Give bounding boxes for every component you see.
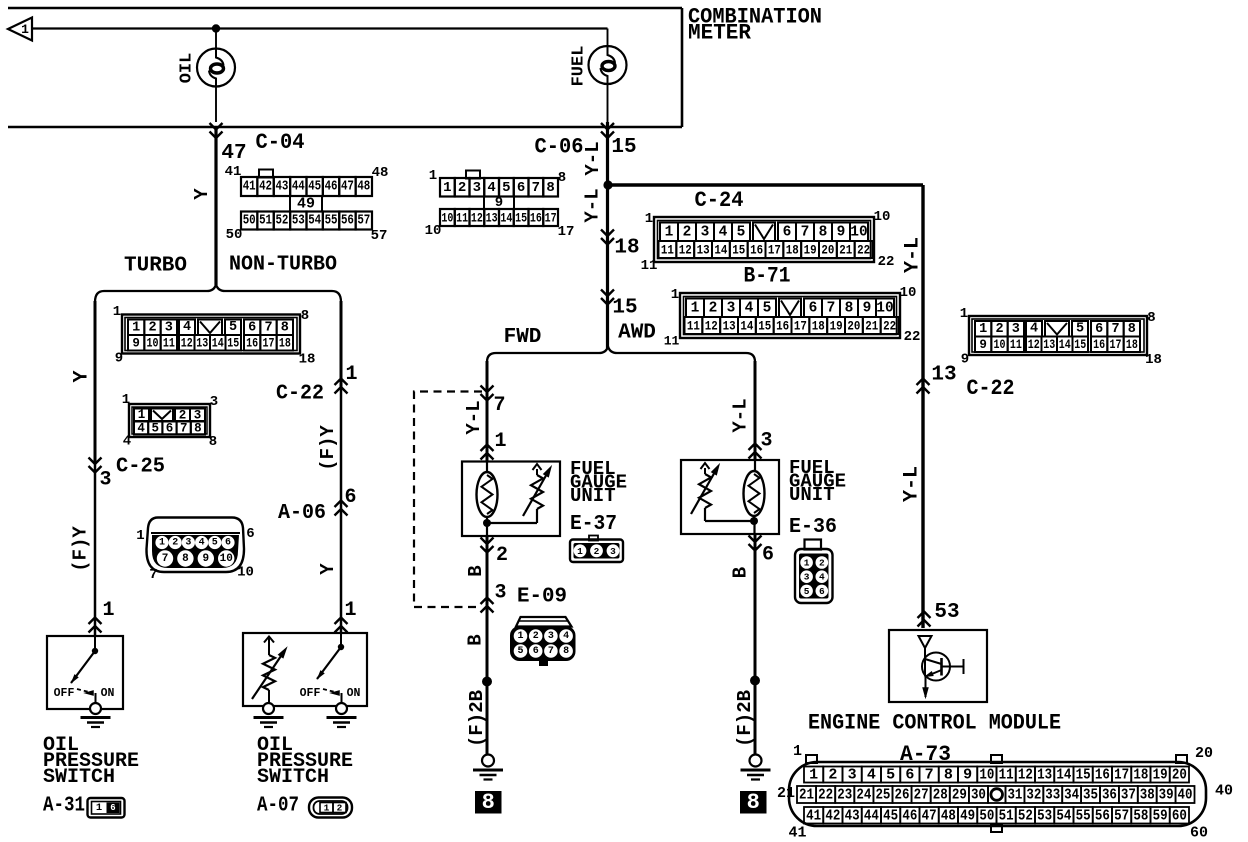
wire: E-09 junction to ground <box>486 607 489 755</box>
wire: FWD branch upper <box>486 361 489 462</box>
svg-text:2: 2 <box>683 224 692 240</box>
svg-text:OIL: OIL <box>178 53 197 84</box>
svg-text:20: 20 <box>1172 767 1187 784</box>
svg-text:53: 53 <box>292 214 305 229</box>
svg-text:17: 17 <box>1110 338 1122 352</box>
svg-text:16: 16 <box>750 243 763 258</box>
label ENGINE CONTROL MODULE <box>808 711 1061 736</box>
connector C-22 face (right) <box>960 306 1162 401</box>
svg-text:48: 48 <box>941 807 956 824</box>
connector C-22 face (left) <box>113 304 316 368</box>
label C-04 <box>256 130 305 155</box>
connector icon E-37 <box>570 536 623 563</box>
svg-text:1: 1 <box>21 22 29 37</box>
svg-text:4: 4 <box>745 300 754 316</box>
svg-text:43: 43 <box>845 807 860 824</box>
svg-text:9: 9 <box>115 351 123 367</box>
svg-text:54: 54 <box>1056 807 1071 824</box>
svg-text:46: 46 <box>325 180 338 195</box>
svg-text:1: 1 <box>809 767 818 784</box>
svg-text:5: 5 <box>152 422 160 436</box>
svg-text:(F)2B: (F)2B <box>734 690 756 747</box>
svg-text:C-04: C-04 <box>256 130 305 155</box>
wire: junction down to AWD split <box>606 185 609 348</box>
svg-text:A-06: A-06 <box>278 502 326 525</box>
svg-text:10: 10 <box>900 285 917 301</box>
svg-text:8: 8 <box>1128 322 1136 337</box>
wire label (F)2B right <box>734 690 756 747</box>
svg-text:C-22: C-22 <box>276 383 324 406</box>
page connector arrow 1 <box>8 18 32 41</box>
svg-text:47: 47 <box>341 180 354 195</box>
svg-text:NON-TURBO: NON-TURBO <box>229 254 337 277</box>
svg-text:32: 32 <box>1026 787 1041 804</box>
wire: bus to OIL lamp <box>215 29 217 49</box>
svg-text:16: 16 <box>246 336 258 350</box>
svg-text:B-71: B-71 <box>744 264 791 289</box>
wire: E-37 to E-09 junction <box>486 536 489 607</box>
svg-text:8: 8 <box>194 422 202 436</box>
svg-text:12: 12 <box>705 319 718 334</box>
connector crossing chevrons at C-22 pin 13 <box>917 379 930 394</box>
svg-text:16: 16 <box>1095 767 1110 784</box>
chevron at ECM pin 53 <box>918 612 931 627</box>
svg-text:17: 17 <box>1114 767 1129 784</box>
wire label (F)Y left <box>70 526 92 572</box>
svg-text:1: 1 <box>793 743 802 760</box>
svg-text:SWITCH: SWITCH <box>43 766 115 789</box>
svg-text:Y: Y <box>71 370 94 382</box>
svg-text:7: 7 <box>1111 322 1119 337</box>
svg-text:6: 6 <box>533 646 539 657</box>
svg-text:8: 8 <box>819 224 828 240</box>
wire label Y (turbo) <box>71 370 94 382</box>
svg-text:41: 41 <box>788 825 806 842</box>
svg-text:Y-L: Y-L <box>582 141 604 175</box>
connector crossing chevrons at E-09 pin 7 <box>481 386 494 401</box>
svg-text:6: 6 <box>110 803 115 813</box>
svg-text:15: 15 <box>1074 338 1086 352</box>
svg-text:3: 3 <box>760 430 772 453</box>
svg-text:8: 8 <box>546 180 554 196</box>
svg-text:B: B <box>465 634 487 645</box>
wire: non-turbo branch <box>340 301 343 633</box>
svg-text:13: 13 <box>931 364 956 387</box>
combination meter box outline <box>8 8 682 127</box>
svg-text:Y-L: Y-L <box>730 398 752 432</box>
svg-text:5: 5 <box>763 300 772 316</box>
svg-text:6: 6 <box>517 180 525 196</box>
oil pressure switch A-07 (sender + switch symbols) <box>243 633 367 706</box>
svg-text:Y: Y <box>317 563 339 575</box>
svg-text:2: 2 <box>496 544 508 567</box>
svg-text:39: 39 <box>1159 787 1174 804</box>
svg-text:17: 17 <box>794 319 807 334</box>
label A-06 <box>278 502 326 525</box>
connector crossing chevrons at C-24 pin 18 <box>601 230 614 245</box>
svg-text:4: 4 <box>1030 322 1038 337</box>
svg-text:23: 23 <box>837 787 852 804</box>
svg-text:52: 52 <box>1018 807 1033 824</box>
svg-text:8: 8 <box>558 170 566 186</box>
svg-text:4: 4 <box>867 767 876 784</box>
svg-text:48: 48 <box>357 180 370 195</box>
svg-text:7: 7 <box>180 422 188 436</box>
junction node (AWD ground splice) <box>750 676 760 686</box>
svg-text:8: 8 <box>482 790 495 815</box>
ground ref 8 (FWD) <box>475 790 502 815</box>
svg-text:16: 16 <box>530 211 542 226</box>
svg-text:24: 24 <box>856 787 871 804</box>
svg-text:30: 30 <box>971 787 986 804</box>
svg-text:8: 8 <box>281 320 289 335</box>
pin label 1 (E-37) <box>494 430 506 453</box>
svg-text:1: 1 <box>102 599 114 622</box>
svg-text:1: 1 <box>122 392 130 408</box>
svg-text:UNIT: UNIT <box>789 484 835 506</box>
svg-text:2: 2 <box>148 320 156 335</box>
svg-text:2: 2 <box>337 803 343 814</box>
svg-text:17: 17 <box>558 224 575 240</box>
svg-text:9: 9 <box>961 352 969 368</box>
svg-text:5: 5 <box>737 224 746 240</box>
chevron at E-36 pin 3 <box>749 444 762 459</box>
svg-text:SWITCH: SWITCH <box>257 766 329 789</box>
svg-text:1: 1 <box>429 168 437 184</box>
svg-text:27: 27 <box>914 787 929 804</box>
svg-text:5: 5 <box>502 180 510 196</box>
wire: turbo split bracket <box>95 285 341 303</box>
pin label 11 (B-71, AWD) <box>664 334 680 349</box>
svg-text:1: 1 <box>132 320 140 335</box>
svg-text:49: 49 <box>960 807 975 824</box>
svg-text:8: 8 <box>563 646 569 657</box>
pin label 2 <box>496 544 508 567</box>
svg-text:2: 2 <box>179 408 187 422</box>
svg-text:19: 19 <box>804 243 817 258</box>
svg-text:21: 21 <box>839 243 852 258</box>
svg-text:Y-L: Y-L <box>463 400 485 434</box>
wire: bus turn down to FUEL lamp <box>607 29 609 47</box>
svg-text:16: 16 <box>1093 338 1105 352</box>
svg-text:33: 33 <box>1045 787 1060 804</box>
svg-text:1: 1 <box>517 631 523 642</box>
wire: OIL lamp to connector C-04 <box>215 87 217 123</box>
svg-text:9: 9 <box>132 336 140 350</box>
svg-text:E-37: E-37 <box>570 513 617 536</box>
svg-text:1: 1 <box>136 528 144 544</box>
label NON-TURBO <box>229 254 337 277</box>
svg-text:10: 10 <box>876 300 893 316</box>
svg-text:3: 3 <box>165 320 173 335</box>
pin label 47 <box>221 142 246 165</box>
svg-text:11: 11 <box>687 319 700 334</box>
wire: meter internal bus <box>32 27 608 29</box>
svg-text:14: 14 <box>714 243 727 258</box>
pin label 7 <box>493 394 505 417</box>
svg-text:C-24: C-24 <box>695 188 744 213</box>
svg-text:2: 2 <box>995 322 1003 337</box>
svg-text:1: 1 <box>494 430 506 453</box>
svg-text:13: 13 <box>1043 338 1055 352</box>
svg-text:20: 20 <box>847 319 860 334</box>
svg-text:55: 55 <box>1076 807 1091 824</box>
svg-text:4: 4 <box>719 224 728 240</box>
ground (A-07 sender) <box>254 703 284 727</box>
connector crossing chevrons at A-07 pin 1 <box>335 618 348 633</box>
svg-text:4: 4 <box>123 434 131 450</box>
svg-text:7: 7 <box>827 300 836 316</box>
svg-text:22: 22 <box>818 787 833 804</box>
svg-text:42: 42 <box>259 180 272 195</box>
chevrons at E-09 pin 3 <box>481 598 494 613</box>
pin label 3 (E-36) <box>760 430 772 453</box>
label E-09 <box>517 586 567 609</box>
svg-text:18: 18 <box>279 336 291 350</box>
svg-text:6: 6 <box>225 538 231 549</box>
svg-text:7: 7 <box>548 646 554 657</box>
connector crossing chevrons at C-22 pin 1 <box>335 379 348 394</box>
svg-text:45: 45 <box>308 180 321 195</box>
svg-text:11: 11 <box>661 243 674 258</box>
svg-text:7: 7 <box>162 553 169 565</box>
svg-text:57: 57 <box>1114 807 1129 824</box>
svg-text:(F)Y: (F)Y <box>317 425 339 471</box>
svg-text:2: 2 <box>594 546 600 557</box>
svg-text:TURBO: TURBO <box>124 255 187 278</box>
svg-text:3: 3 <box>1012 322 1020 337</box>
wire label Y-L right lower <box>901 466 924 502</box>
connector A-06 face <box>136 518 254 584</box>
svg-text:10: 10 <box>874 209 891 225</box>
junction node at OIL branch <box>212 24 220 32</box>
svg-text:12: 12 <box>679 243 692 258</box>
connector C-04 face <box>225 164 389 244</box>
svg-text:41: 41 <box>243 180 256 195</box>
svg-text:1: 1 <box>691 300 700 316</box>
chevron at E-37 pin 1 <box>481 445 494 460</box>
svg-text:17: 17 <box>768 243 781 258</box>
svg-text:51: 51 <box>999 807 1014 824</box>
svg-text:B: B <box>465 565 487 576</box>
svg-text:47: 47 <box>922 807 937 824</box>
svg-text:B: B <box>730 567 752 578</box>
svg-text:19: 19 <box>830 319 843 334</box>
svg-text:2: 2 <box>533 631 539 642</box>
svg-text:3: 3 <box>610 546 616 557</box>
svg-text:1: 1 <box>443 180 451 196</box>
svg-text:18: 18 <box>299 352 316 368</box>
label OIL PRESSURE SWITCH (A-31) <box>43 734 139 818</box>
oil pressure switch A-31 (switch symbol) <box>47 636 123 709</box>
connector crossing chevrons at A-31 pin 1 <box>89 618 102 633</box>
svg-text:3: 3 <box>210 394 218 410</box>
junction node Y-L split <box>603 180 612 189</box>
label OIL PRESSURE SWITCH (A-07) <box>257 734 353 818</box>
svg-text:20: 20 <box>821 243 834 258</box>
svg-text:Y-L: Y-L <box>901 466 924 502</box>
ground (A-31) <box>81 703 111 727</box>
svg-text:17: 17 <box>545 211 557 226</box>
svg-text:11: 11 <box>456 211 468 226</box>
svg-text:52: 52 <box>275 214 288 229</box>
svg-text:18: 18 <box>1126 338 1138 352</box>
svg-text:18: 18 <box>1133 767 1148 784</box>
svg-text:36: 36 <box>1102 787 1117 804</box>
svg-text:53: 53 <box>1037 807 1052 824</box>
svg-text:16: 16 <box>776 319 789 334</box>
svg-text:18: 18 <box>786 243 799 258</box>
svg-text:4: 4 <box>183 320 191 335</box>
svg-text:25: 25 <box>875 787 890 804</box>
pin label 3 (C-25) <box>99 469 111 492</box>
svg-text:50: 50 <box>979 807 994 824</box>
svg-text:50: 50 <box>226 227 243 243</box>
svg-text:10: 10 <box>979 767 994 784</box>
svg-text:50: 50 <box>243 214 256 229</box>
chevrons at E-37 pin 2 <box>481 538 494 553</box>
svg-text:3: 3 <box>804 572 810 583</box>
label AWD <box>618 322 656 345</box>
svg-text:5: 5 <box>1076 322 1084 337</box>
svg-text:51: 51 <box>259 214 272 229</box>
svg-text:9: 9 <box>979 338 987 352</box>
pin label 15 <box>611 136 636 159</box>
svg-text:10: 10 <box>425 223 442 239</box>
svg-text:15: 15 <box>515 211 527 226</box>
svg-text:4: 4 <box>137 422 145 436</box>
wire label B (AWD) <box>730 567 752 578</box>
svg-text:1: 1 <box>138 408 146 422</box>
svg-text:11: 11 <box>163 336 175 350</box>
svg-text:10: 10 <box>994 338 1006 352</box>
svg-text:6: 6 <box>819 586 825 597</box>
svg-text:54: 54 <box>308 214 321 229</box>
svg-text:6: 6 <box>246 526 254 542</box>
svg-text:FWD: FWD <box>504 326 542 349</box>
svg-text:9: 9 <box>963 767 972 784</box>
wire: turbo branch lower <box>94 464 97 636</box>
svg-text:10: 10 <box>147 336 159 350</box>
svg-text:3: 3 <box>727 300 736 316</box>
svg-text:60: 60 <box>1190 825 1208 842</box>
svg-text:8: 8 <box>845 300 854 316</box>
indicator lamp FUEL <box>570 46 627 87</box>
ground ref 8 (AWD) <box>740 790 767 815</box>
chevrons at E-36 pin 6 <box>749 536 762 551</box>
svg-text:14: 14 <box>212 336 224 350</box>
svg-text:3: 3 <box>494 582 506 605</box>
svg-text:37: 37 <box>1121 787 1136 804</box>
svg-text:44: 44 <box>292 180 305 195</box>
svg-text:6: 6 <box>762 544 774 567</box>
wire: AWD branch upper <box>754 361 757 460</box>
svg-text:1: 1 <box>113 304 121 320</box>
svg-text:14: 14 <box>740 319 753 334</box>
svg-text:58: 58 <box>1133 807 1148 824</box>
pin label 15 (B-71) <box>612 297 637 320</box>
svg-text:C-22: C-22 <box>967 376 1015 401</box>
pin label 6 (A-06) <box>344 486 356 509</box>
svg-text:6: 6 <box>809 300 818 316</box>
wire: FUEL lamp to connector C-06 <box>607 84 609 122</box>
svg-text:METER: METER <box>688 21 752 46</box>
label C-06 <box>535 135 584 160</box>
svg-text:A-07: A-07 <box>257 795 299 818</box>
wire label Y-L (FWD) <box>463 400 485 434</box>
svg-text:59: 59 <box>1153 807 1168 824</box>
svg-text:35: 35 <box>1083 787 1098 804</box>
wire label Y (OIL wire) <box>191 188 213 200</box>
connector icon E-36 <box>795 540 833 604</box>
connector C-06 face <box>425 168 575 240</box>
wire label B (FWD upper) <box>465 565 487 576</box>
svg-text:ENGINE CONTROL MODULE: ENGINE CONTROL MODULE <box>808 711 1061 736</box>
svg-text:7: 7 <box>493 394 505 417</box>
connector icon A-07 <box>309 798 352 818</box>
svg-text:14: 14 <box>1059 338 1071 352</box>
svg-text:15: 15 <box>758 319 771 334</box>
svg-text:2: 2 <box>172 538 178 549</box>
svg-text:2: 2 <box>828 767 837 784</box>
fuel gauge unit E-37 box <box>462 462 560 537</box>
svg-text:13: 13 <box>697 243 710 258</box>
svg-text:44: 44 <box>864 807 879 824</box>
svg-text:1: 1 <box>960 306 968 322</box>
svg-text:3: 3 <box>548 631 554 642</box>
fuel gauge unit E-36 box <box>681 460 779 534</box>
ground (A-07 switch) <box>327 703 357 727</box>
svg-text:22: 22 <box>904 329 921 345</box>
svg-text:12: 12 <box>471 211 483 226</box>
svg-text:10: 10 <box>850 224 867 240</box>
svg-text:18: 18 <box>1145 352 1162 368</box>
svg-text:2: 2 <box>458 180 466 196</box>
connector crossing chevrons at C-06 pin 15 <box>601 123 614 138</box>
pin label 13 <box>931 364 956 387</box>
svg-text:15: 15 <box>611 136 636 159</box>
svg-text:6: 6 <box>248 320 256 335</box>
svg-text:15: 15 <box>612 297 637 320</box>
svg-text:10: 10 <box>237 565 254 581</box>
svg-text:7: 7 <box>149 567 157 583</box>
svg-text:18: 18 <box>614 237 639 260</box>
svg-text:14: 14 <box>1056 767 1071 784</box>
wire label Y-L upper <box>582 141 604 175</box>
svg-text:OFF: OFF <box>300 687 321 700</box>
svg-text:5: 5 <box>804 586 810 597</box>
svg-text:(F)Y: (F)Y <box>70 526 92 572</box>
svg-text:41: 41 <box>225 164 242 180</box>
svg-text:56: 56 <box>341 214 354 229</box>
connector crossing chevrons at C-25 pin 3 <box>89 458 102 473</box>
svg-text:8: 8 <box>944 767 953 784</box>
svg-text:29: 29 <box>952 787 967 804</box>
svg-text:1: 1 <box>345 363 357 386</box>
svg-text:3: 3 <box>701 224 710 240</box>
svg-text:22: 22 <box>878 254 895 270</box>
svg-text:15: 15 <box>732 243 745 258</box>
svg-text:OFF: OFF <box>54 687 75 700</box>
ECM output transistor <box>889 630 987 702</box>
pin label 53 <box>934 601 959 624</box>
svg-text:43: 43 <box>275 180 288 195</box>
svg-text:56: 56 <box>1095 807 1110 824</box>
svg-text:20: 20 <box>1195 745 1213 762</box>
wire: junction to right bus corner <box>608 185 923 628</box>
svg-text:1: 1 <box>804 558 810 569</box>
wire: turbo branch upper <box>94 301 97 464</box>
